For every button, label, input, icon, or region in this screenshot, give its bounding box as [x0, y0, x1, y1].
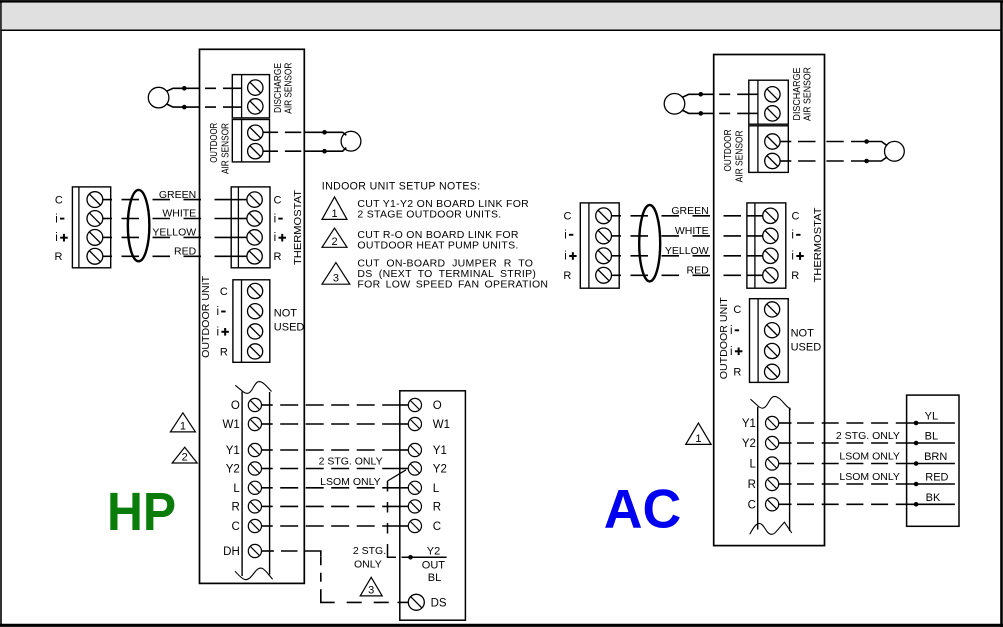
note triangle 1: [322, 197, 347, 220]
terminal screw Y1 (HP board strip): [248, 443, 261, 456]
terminal screw O (HP board strip): [248, 398, 261, 411]
wire: L board-to-strip (HP): [262, 487, 273, 489]
svg-text:LSOM ONLY: LSOM ONLY: [320, 476, 381, 488]
svg-text:LSOM ONLY: LSOM ONLY: [839, 450, 900, 462]
terminal screw R (HP right strip): [408, 500, 421, 513]
svg-text:R: R: [563, 270, 571, 282]
HP indoor unit board outline: [200, 49, 305, 583]
terminal screw R (HP board strip): [248, 500, 261, 513]
cable bundle ellipse (AC): [639, 205, 660, 281]
terminal screw DH (HP board strip): [248, 544, 261, 557]
outdoor air sensor bulb (HP): [341, 131, 361, 151]
svg-text:3: 3: [333, 273, 339, 285]
wire: HP outdoor sensor upper lead: [263, 131, 278, 133]
outdoor air sensor terminal block (AC board): [749, 126, 789, 173]
wire: C board-to-BK (AC): [779, 503, 792, 505]
wire: L board-to-BRN (AC): [779, 463, 792, 465]
svg-text:OUTDOOR: OUTDOOR: [723, 130, 734, 172]
discharge air sensor bulb (HP): [148, 87, 169, 108]
junction dot on AC outdoor upper lead: [864, 139, 869, 144]
svg-text:AC: AC: [604, 479, 682, 539]
svg-text:Y1: Y1: [226, 445, 240, 457]
svg-text:Y1: Y1: [433, 445, 447, 457]
svg-text:W1: W1: [433, 419, 450, 431]
svg-text:R: R: [748, 479, 756, 491]
svg-text:C: C: [792, 211, 800, 223]
svg-text:YL: YL: [925, 411, 938, 423]
junction dot on AC discharge upper lead: [699, 92, 704, 97]
terminal screw C (HP right strip): [408, 519, 421, 532]
svg-text:Y2: Y2: [226, 464, 240, 476]
wire: AC discharge sensor lower lead: [682, 110, 714, 113]
svg-text:DISCHARGE: DISCHARGE: [792, 67, 803, 120]
terminal screw L (AC board strip): [766, 457, 779, 470]
discharge air sensor bulb (AC): [664, 94, 685, 115]
svg-text:2: 2: [331, 236, 337, 248]
svg-text:i: i: [730, 346, 733, 358]
warning triangle 1 (AC): [686, 423, 711, 444]
svg-text:NOT: NOT: [791, 328, 815, 340]
wire: HP discharge sensor lower lead: [166, 104, 199, 107]
svg-text:DH: DH: [223, 546, 240, 558]
wire: RED thermostat conductor (AC): [612, 274, 622, 276]
svg-text:L: L: [233, 483, 240, 495]
svg-text:YELLOW: YELLOW: [665, 245, 709, 257]
note triangle 3: [322, 263, 350, 285]
warning triangle 3 (HP): [360, 577, 382, 596]
svg-text:INDOOR UNIT SETUP NOTES:: INDOOR UNIT SETUP NOTES:: [322, 181, 481, 193]
board break squiggle top (HP strip): [235, 382, 271, 394]
svg-text:R: R: [733, 367, 741, 379]
svg-text:O: O: [231, 400, 240, 412]
svg-text:WHITE: WHITE: [675, 225, 709, 237]
outdoor unit terminal strip (HP right): [400, 391, 466, 620]
svg-text:HP: HP: [107, 481, 176, 541]
thermostat wall terminal block (HP, external): [72, 187, 110, 268]
svg-text:OUT: OUT: [422, 560, 446, 572]
svg-text:i: i: [730, 325, 733, 337]
outdoor unit terminal block (HP board, not used): [233, 280, 270, 363]
junction dot on AC outdoor lower lead: [864, 159, 869, 164]
svg-text:Y2: Y2: [427, 545, 440, 557]
wire: YELLOW thermostat conductor (HP): [103, 236, 112, 238]
junction dot on HP outdoor lower lead: [322, 149, 327, 154]
svg-text:NOT: NOT: [274, 308, 298, 320]
junction dot RED (AC): [914, 482, 919, 487]
wire: C board-to-strip (HP): [262, 525, 273, 527]
terminal screw L (HP board strip): [248, 481, 261, 494]
terminal screw Y2 (AC board strip): [766, 436, 779, 449]
svg-text:2: 2: [182, 452, 188, 464]
svg-text:THERMOSTAT: THERMOSTAT: [292, 189, 304, 265]
wire: RED thermostat conductor (HP): [103, 255, 112, 257]
terminal screw W1 (HP right strip): [408, 417, 421, 430]
svg-text:YELLOW: YELLOW: [152, 227, 196, 239]
wire: Y2 to Y2-OUT link (HP): [388, 470, 406, 481]
svg-text:Y2: Y2: [433, 464, 447, 476]
svg-text:i: i: [55, 213, 58, 225]
wire: Y1 board-to-YL (AC): [779, 422, 792, 424]
svg-text:C: C: [231, 521, 239, 533]
terminal screw C (HP board strip): [248, 519, 261, 532]
title bar: [2, 3, 1000, 30]
discharge air sensor terminal block (AC board): [749, 80, 789, 124]
svg-text:R: R: [433, 501, 441, 513]
svg-text:OUTDOOR UNIT: OUTDOOR UNIT: [718, 297, 730, 380]
svg-text:Y2: Y2: [742, 438, 756, 450]
junction dot BL (AC): [914, 441, 919, 446]
svg-text:C: C: [564, 211, 572, 223]
svg-text:i: i: [55, 232, 58, 244]
svg-text:AIR SENSOR: AIR SENSOR: [283, 63, 294, 114]
svg-text:OUTDOOR HEAT PUMP UNITS.: OUTDOOR HEAT PUMP UNITS.: [357, 240, 518, 252]
wire: DH to DS jumper (HP): [262, 550, 274, 552]
svg-text:AIR SENSOR: AIR SENSOR: [803, 67, 814, 121]
terminal screw DS (HP right strip): [408, 594, 424, 610]
svg-text:RED: RED: [174, 246, 197, 258]
outdoor air sensor bulb (AC): [885, 141, 905, 161]
board terminal strip rails (AC): [757, 407, 759, 530]
svg-text:RED: RED: [925, 472, 948, 484]
wire: AC discharge sensor upper lead: [682, 94, 714, 97]
svg-text:3: 3: [368, 584, 374, 596]
svg-text:RED: RED: [687, 264, 710, 276]
junction dot BRN (AC): [914, 461, 919, 466]
wire: Y1 board-to-strip (HP): [262, 449, 273, 451]
terminal screw R (AC board strip): [766, 477, 779, 490]
svg-text:Y1: Y1: [742, 418, 756, 430]
terminal screw Y1 (HP right strip): [408, 443, 421, 456]
wire: R board-to-RED (AC): [779, 483, 792, 485]
junction dot on HP outdoor upper lead: [322, 130, 327, 135]
svg-text:C: C: [274, 195, 282, 207]
svg-text:C: C: [55, 194, 63, 206]
svg-text:THERMOSTAT: THERMOSTAT: [812, 207, 824, 283]
junction dot on AC discharge lower lead: [699, 111, 704, 116]
wire: AC outdoor sensor lower lead: [780, 160, 791, 162]
wire: HP outdoor sensor lower lead: [263, 150, 278, 152]
svg-text:R: R: [274, 251, 282, 263]
wire: WHITE thermostat conductor (AC): [612, 235, 622, 237]
cable bundle ellipse (HP): [128, 190, 150, 261]
svg-text:1: 1: [695, 433, 701, 445]
svg-text:O: O: [433, 400, 442, 412]
svg-text:i: i: [564, 230, 567, 242]
svg-text:1: 1: [180, 420, 186, 432]
svg-text:OUTDOOR: OUTDOOR: [209, 123, 220, 163]
outdoor unit wire strip (AC right): [907, 395, 959, 526]
svg-text:DISCHARGE: DISCHARGE: [273, 63, 284, 113]
svg-text:i: i: [791, 251, 794, 263]
wire: WHITE thermostat conductor (HP): [103, 218, 112, 220]
junction dot BK (AC): [914, 502, 919, 507]
svg-text:2 STAGE OUTDOOR UNITS.: 2 STAGE OUTDOOR UNITS.: [357, 208, 501, 220]
terminal screw Y2 (HP right strip): [408, 462, 421, 475]
terminal screw Y2 (HP board strip): [248, 462, 261, 475]
wire: AC outdoor sensor upper lead: [780, 141, 791, 143]
terminal screw C (AC board strip): [766, 498, 779, 511]
svg-text:2 STG. ONLY: 2 STG. ONLY: [836, 430, 900, 442]
svg-text:OUTDOOR UNIT: OUTDOOR UNIT: [200, 275, 212, 358]
junction dot on HP discharge lower lead: [182, 105, 187, 110]
svg-text:R: R: [231, 501, 239, 513]
wire: O board-to-strip (HP): [262, 404, 273, 406]
AC indoor unit board outline: [714, 55, 825, 546]
wire: R board-to-strip (HP): [262, 505, 273, 507]
svg-text:USED: USED: [791, 342, 822, 354]
terminal screw W1 (HP board strip): [248, 417, 261, 430]
svg-text:C: C: [748, 499, 756, 511]
svg-text:i: i: [217, 326, 220, 338]
svg-text:BL: BL: [925, 431, 938, 443]
svg-text:i: i: [564, 251, 567, 263]
wire: W1 board-to-strip (HP): [262, 423, 273, 425]
svg-text:i: i: [274, 232, 277, 244]
wire: HP discharge sensor upper lead: [166, 88, 199, 91]
svg-text:FOR LOW SPEED FAN OPERATION: FOR LOW SPEED FAN OPERATION: [357, 278, 548, 290]
svg-text:C: C: [433, 521, 441, 533]
svg-text:R: R: [55, 251, 63, 263]
svg-text:R: R: [791, 270, 799, 282]
board break squiggle bottom (AC strip): [750, 522, 792, 534]
svg-text:GREEN: GREEN: [159, 189, 196, 201]
warning triangle 2 (HP): [172, 447, 197, 463]
svg-text:BL: BL: [428, 572, 441, 584]
svg-text:i: i: [274, 213, 277, 225]
svg-text:BRN: BRN: [924, 451, 947, 463]
svg-text:USED: USED: [274, 322, 305, 334]
svg-text:2 STG. ONLY: 2 STG. ONLY: [319, 455, 383, 467]
outdoor air sensor terminal block (HP board): [232, 120, 269, 162]
board terminal strip rails (HP): [241, 392, 243, 577]
board break squiggle top (AC strip): [751, 396, 791, 409]
discharge air sensor terminal block (HP board): [232, 75, 269, 118]
svg-text:ONLY: ONLY: [354, 558, 382, 570]
svg-text:DS: DS: [431, 598, 447, 610]
wire: GREEN thermostat conductor (HP): [103, 199, 112, 201]
wire: Y2 board-to-strip (HP): [262, 468, 273, 470]
svg-text:R: R: [220, 346, 228, 358]
wire: GREEN thermostat conductor (AC): [612, 215, 622, 217]
svg-text:C: C: [220, 286, 228, 298]
junction dot on HP discharge upper lead: [182, 86, 187, 91]
note triangle 2: [322, 228, 347, 247]
svg-text:WHITE: WHITE: [162, 208, 196, 220]
terminal screw O (HP right strip): [408, 398, 421, 411]
svg-text:i: i: [217, 306, 220, 318]
svg-text:BK: BK: [926, 492, 941, 504]
svg-text:W1: W1: [223, 419, 240, 431]
svg-text:C: C: [733, 304, 741, 316]
thermostat wall terminal block (AC, external): [580, 203, 619, 288]
svg-text:AIR SENSOR: AIR SENSOR: [220, 123, 231, 174]
junction dot YL (AC): [914, 421, 919, 426]
wire: Y2 board-to-BL (AC): [779, 442, 792, 444]
svg-text:AIR SENSOR: AIR SENSOR: [734, 130, 745, 182]
svg-text:2 STG.: 2 STG.: [353, 545, 386, 557]
terminal screw L (HP right strip): [408, 481, 421, 494]
warning triangle 1 (HP): [170, 413, 195, 432]
svg-text:LSOM ONLY: LSOM ONLY: [839, 471, 900, 483]
svg-text:1: 1: [331, 208, 337, 220]
outdoor unit terminal block (AC board, not used): [750, 299, 789, 383]
svg-text:L: L: [433, 483, 440, 495]
terminal screw Y1 (AC board strip): [766, 416, 779, 429]
svg-text:GREEN: GREEN: [671, 205, 708, 217]
svg-text:i: i: [791, 230, 794, 242]
svg-text:L: L: [749, 459, 756, 471]
thermostat terminal block (AC board): [747, 203, 786, 288]
board break squiggle bottom (HP strip): [235, 568, 273, 580]
wire: YELLOW thermostat conductor (AC): [612, 255, 622, 257]
thermostat terminal block (HP board): [231, 187, 270, 268]
